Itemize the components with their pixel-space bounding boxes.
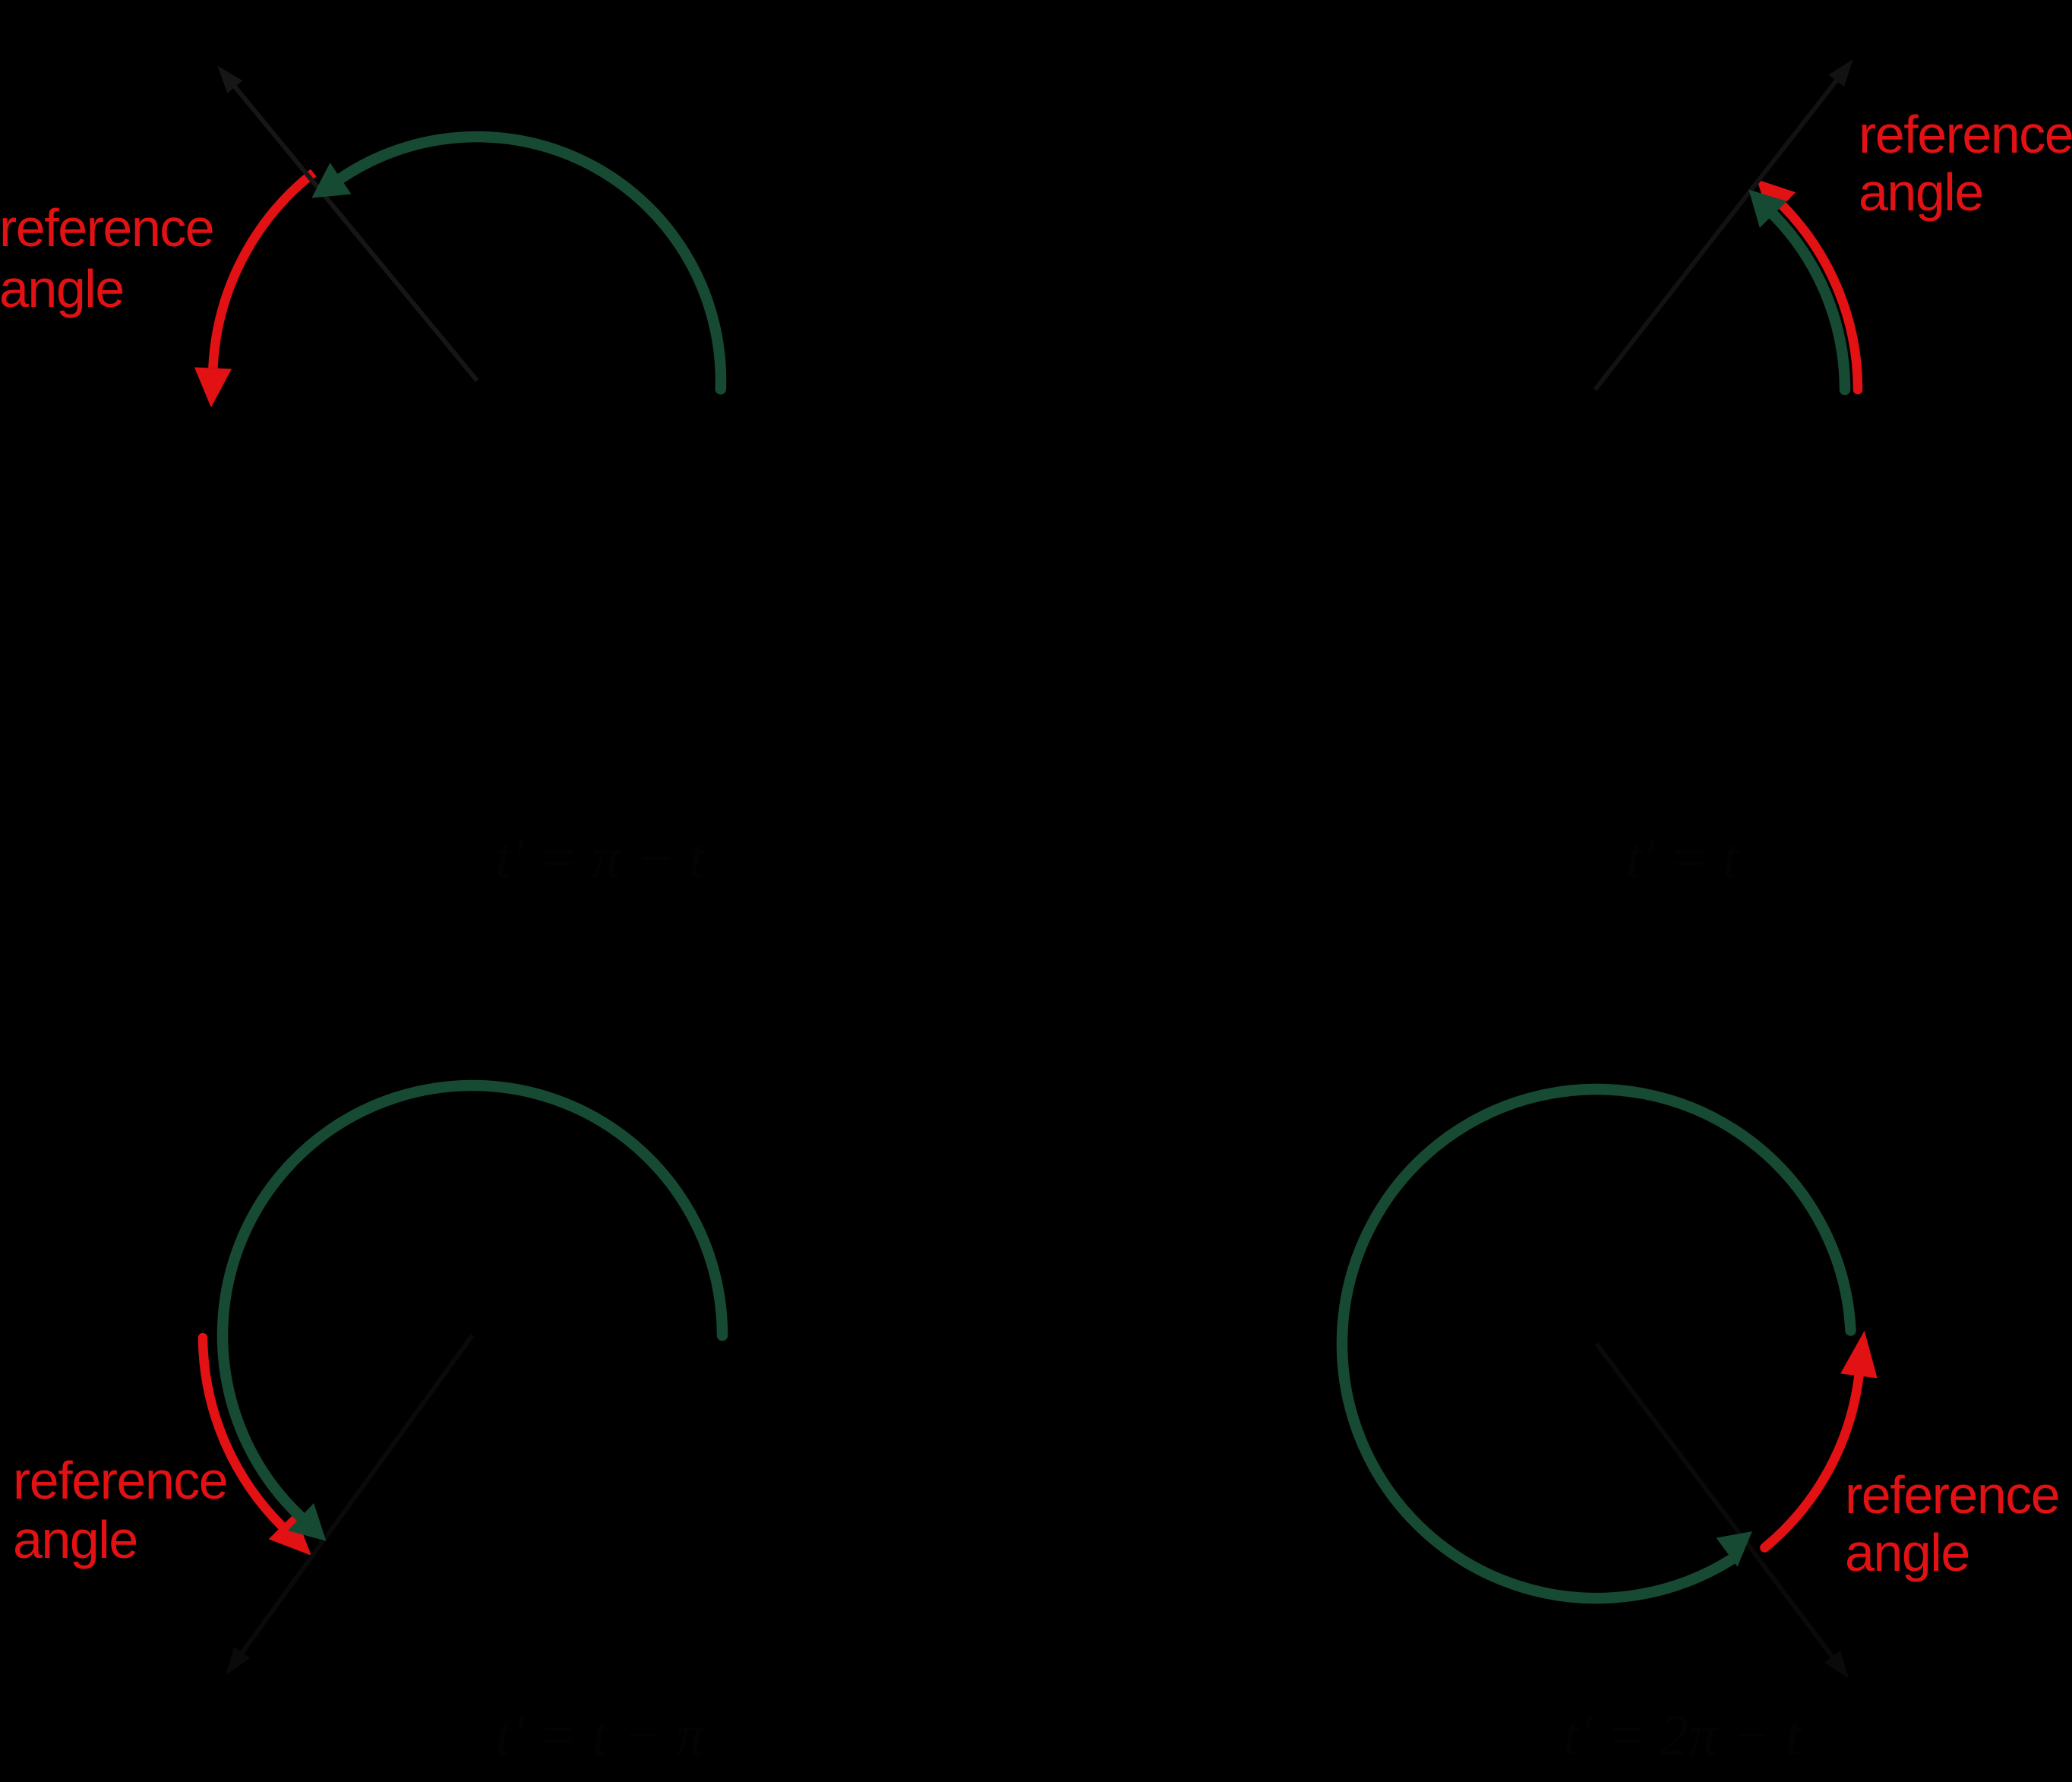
svg-text:reference: reference [1859, 105, 2072, 164]
terminal ray arrowhead (QIII) [226, 1647, 251, 1675]
svg-text:t′ = t: t′ = t [1626, 826, 1740, 890]
terminal side ray (QI) [1595, 78, 1838, 390]
svg-text:reference: reference [1845, 1465, 2059, 1524]
green arrowhead (QIV) [1717, 1531, 1753, 1567]
red reference-angle arc t′ (QI) [1783, 206, 1858, 390]
svg-text:reference: reference [0, 198, 213, 258]
red reference-angle arc t′ (QII) [213, 173, 313, 368]
svg-text:angle: angle [1859, 163, 1983, 222]
svg-text:angle: angle [13, 1510, 137, 1569]
green angle arc t (QIV) [1342, 1089, 1851, 1598]
red reference-angle arc t′ (QIV) [1764, 1376, 1859, 1547]
green arrowhead (QI) [1748, 190, 1786, 228]
red arrowhead (QII) [194, 368, 232, 408]
green angle arc t (QI) [1774, 214, 1845, 390]
terminal ray arrowhead (QI) [1828, 59, 1852, 87]
terminal ray arrowhead (QII) [217, 66, 242, 93]
terminal side ray (QIV) [1597, 1344, 1834, 1659]
red arrowhead (QIV) [1840, 1331, 1878, 1379]
green angle arc t (QIII) [223, 1085, 722, 1517]
red reference-angle arc t′ (QIII) [203, 1338, 282, 1526]
green arrowhead (QIII) [288, 1503, 327, 1541]
green angle arc t (QII) [341, 137, 721, 389]
svg-text:t′ = t − π: t′ = t − π [495, 1704, 706, 1768]
terminal ray arrowhead (QIV) [1824, 1651, 1849, 1679]
terminal side ray (QIII) [240, 1335, 472, 1655]
svg-text:reference: reference [13, 1451, 227, 1510]
red arrowhead (QI) [1757, 179, 1796, 219]
svg-text:angle: angle [0, 259, 124, 318]
svg-text:angle: angle [1845, 1523, 1969, 1582]
terminal side ray (QII) [233, 84, 477, 381]
svg-text:t′ = 2π − t: t′ = 2π − t [1563, 1704, 1802, 1768]
green arrowhead (QII) [311, 163, 351, 197]
svg-text:t′ = π − t: t′ = π − t [495, 826, 706, 890]
red arrowhead (QIII) [269, 1513, 311, 1556]
